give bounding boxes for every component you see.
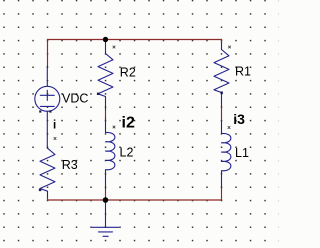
svg-text:L1: L1 [235, 146, 249, 160]
svg-text:R1: R1 [235, 65, 251, 79]
svg-text:i3: i3 [233, 111, 245, 127]
svg-text:R3: R3 [62, 158, 78, 172]
svg-text:R2: R2 [120, 66, 136, 80]
svg-text:i: i [53, 119, 56, 131]
svg-text:VDC: VDC [62, 92, 88, 106]
svg-text:i2: i2 [122, 114, 135, 131]
svg-text:L2: L2 [120, 146, 134, 160]
